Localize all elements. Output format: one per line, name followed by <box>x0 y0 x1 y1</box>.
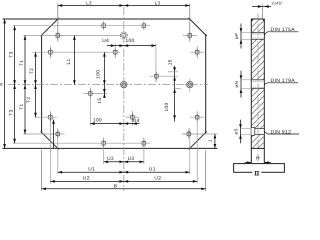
svg-text:U3: U3 <box>128 156 135 162</box>
hole row centerline y=25.7 <box>13 25 150 27</box>
svg-text:B: B <box>114 183 118 189</box>
svg-text:100: 100 <box>125 38 134 44</box>
dimension U2 row <box>50 180 197 182</box>
svg-text:L3: L3 <box>155 0 161 5</box>
hole column x=90.3 (extension to 100 dim) <box>89 87 91 125</box>
diameter dim S (screw hole) <box>240 120 242 144</box>
svg-text:U4: U4 <box>133 118 140 124</box>
bushing hole band DIN 179A <box>251 79 264 81</box>
svg-text:J: J <box>208 139 214 142</box>
counterbored hole right of centre <box>185 79 196 90</box>
side view column outline <box>251 19 264 148</box>
hole row centerline y=52.2 <box>32 51 120 53</box>
side view top chamfers <box>251 19 253 21</box>
hole column line x=189.8 at centre row <box>189 79 191 93</box>
hole column x=155.9 (extension of 100 dim) <box>155 43 157 82</box>
svg-text:U2: U2 <box>154 176 161 182</box>
hole column x=189.8 lower, extension to U1 <box>189 128 191 174</box>
svg-text:⌀N: ⌀N <box>234 81 239 88</box>
svg-text:100: 100 <box>164 102 170 111</box>
svg-text:T1: T1 <box>19 103 25 109</box>
dimension 15 vertical right <box>174 66 176 122</box>
svg-text:⌀S: ⌀S <box>234 128 239 134</box>
svg-text:U1: U1 <box>88 166 95 172</box>
dimension T3 line <box>14 26 16 144</box>
dimension B row <box>42 188 206 190</box>
holes row 52.2 <box>46 48 55 57</box>
short dimension line between lower hole rows <box>53 120 55 149</box>
dimension 15 vertical left <box>103 89 106 93</box>
hole column x=197.2 extension to U2 <box>196 46 198 58</box>
screw hole band DIN 912 with counterbore <box>251 128 264 130</box>
dimension L3 left span <box>58 5 190 7</box>
dimension T2 line <box>35 52 37 117</box>
centre counterbored hole top <box>120 30 127 41</box>
svg-text:2x45°: 2x45° <box>272 1 284 6</box>
hole column x=50.4 lower, extension to U2 <box>49 111 51 184</box>
dimension 100 + U4 bottom row <box>90 123 139 125</box>
clamping foot <box>234 164 285 173</box>
svg-text:T2: T2 <box>26 97 32 103</box>
svg-text:L1: L1 <box>66 58 72 64</box>
hole row centerline y=143.2 <box>13 142 150 144</box>
svg-text:T3: T3 <box>8 109 14 115</box>
svg-text:DIN 175A: DIN 175A <box>271 27 296 33</box>
chamfer bottom-right <box>189 131 207 149</box>
svg-text:H: H <box>256 156 260 162</box>
hole row 93.4 <box>86 89 95 98</box>
dimension L1 <box>73 36 75 85</box>
centre hole of plate <box>119 79 130 90</box>
holes row 143.2 <box>99 139 108 148</box>
dimension U1 row <box>58 171 190 173</box>
vertical centerline of plate <box>123 7 125 191</box>
hole row centerline y=35.5 <box>24 35 121 37</box>
dimension T1 line <box>24 36 26 135</box>
chamfer bottom-left <box>41 131 59 149</box>
holes row 25.7 <box>99 21 108 30</box>
left edge extension to B <box>41 150 43 191</box>
hole column line x=189.8 top (L3 extension) <box>189 4 191 42</box>
plate top edge <box>3 18 191 20</box>
holes row 35.5 <box>54 31 63 40</box>
hole row centerline y=117.2 <box>34 116 57 118</box>
hole row centerline y=134 <box>24 133 65 135</box>
position marker II <box>252 170 261 177</box>
hole column x=115.2 (extension to U4 dim) <box>114 43 116 58</box>
svg-text:15: 15 <box>97 98 103 104</box>
svg-text:15: 15 <box>168 59 174 65</box>
dimension J <box>214 134 216 148</box>
hole column x=50.4 upper <box>49 46 51 58</box>
svg-text:100: 100 <box>93 118 102 124</box>
hole row centerline y=76.2 <box>150 75 179 77</box>
horizontal centerline of plate <box>8 84 208 86</box>
plate left edge <box>41 35 43 133</box>
svg-text:U4: U4 <box>102 38 109 44</box>
holes row 134 <box>54 130 63 139</box>
svg-text:DIN 179A: DIN 179A <box>271 78 296 84</box>
dimension U3 row <box>104 161 144 163</box>
dimension 100 vertical right <box>175 88 181 90</box>
hole column x=103.7 lower, extension to U3 <box>103 137 105 164</box>
leader and label DIN 912 <box>264 132 267 135</box>
hole column x=57.8 lower, extension to U1 <box>57 128 59 174</box>
svg-text:A: A <box>0 83 4 86</box>
svg-text:L3: L3 <box>86 0 92 5</box>
hole row 76.2 <box>152 72 161 81</box>
plate bottom edge <box>3 147 218 149</box>
hole column x=132.4 (extension to U4 dim) <box>131 111 133 126</box>
dimension U4 + 100 top row <box>107 45 156 47</box>
svg-text:U2: U2 <box>83 176 90 182</box>
svg-text:T3: T3 <box>8 51 14 57</box>
hole row centerline y=93.4 <box>84 92 108 94</box>
svg-text:⌀P: ⌀P <box>234 33 239 39</box>
right edge extension to B <box>205 150 207 191</box>
svg-text:T2: T2 <box>29 68 35 74</box>
diameter dim N (middle hole) <box>240 71 242 98</box>
dimension A (plate height) <box>4 19 6 148</box>
leader and label DIN 179A <box>264 83 267 85</box>
diameter dim P (top tapped hole) <box>240 24 242 49</box>
leader and label DIN 175A <box>264 32 267 35</box>
svg-text:U1: U1 <box>149 166 156 172</box>
chamfer top-right <box>189 18 207 36</box>
svg-text:U3: U3 <box>107 156 114 162</box>
dimension 100 vertical left <box>103 52 105 98</box>
svg-text:DIN 912: DIN 912 <box>271 129 292 135</box>
hole column line x=57.8 top (L3 extension) <box>57 4 59 42</box>
svg-text:100: 100 <box>96 70 102 79</box>
tapped hole band DIN 175A <box>251 32 264 34</box>
svg-text:T1: T1 <box>19 60 25 66</box>
dimension H <box>245 162 252 164</box>
side view hatched regions <box>252 20 264 148</box>
side column to foot connectors <box>250 148 252 163</box>
side view centerline <box>257 14 259 177</box>
dimension 2x45 chamfer <box>252 6 271 8</box>
holes row 117.2 <box>46 113 55 122</box>
hole column x=143.9 lower, extension to U3 <box>143 137 145 164</box>
chamfer top-left <box>41 18 59 36</box>
plate right edge <box>205 34 207 134</box>
